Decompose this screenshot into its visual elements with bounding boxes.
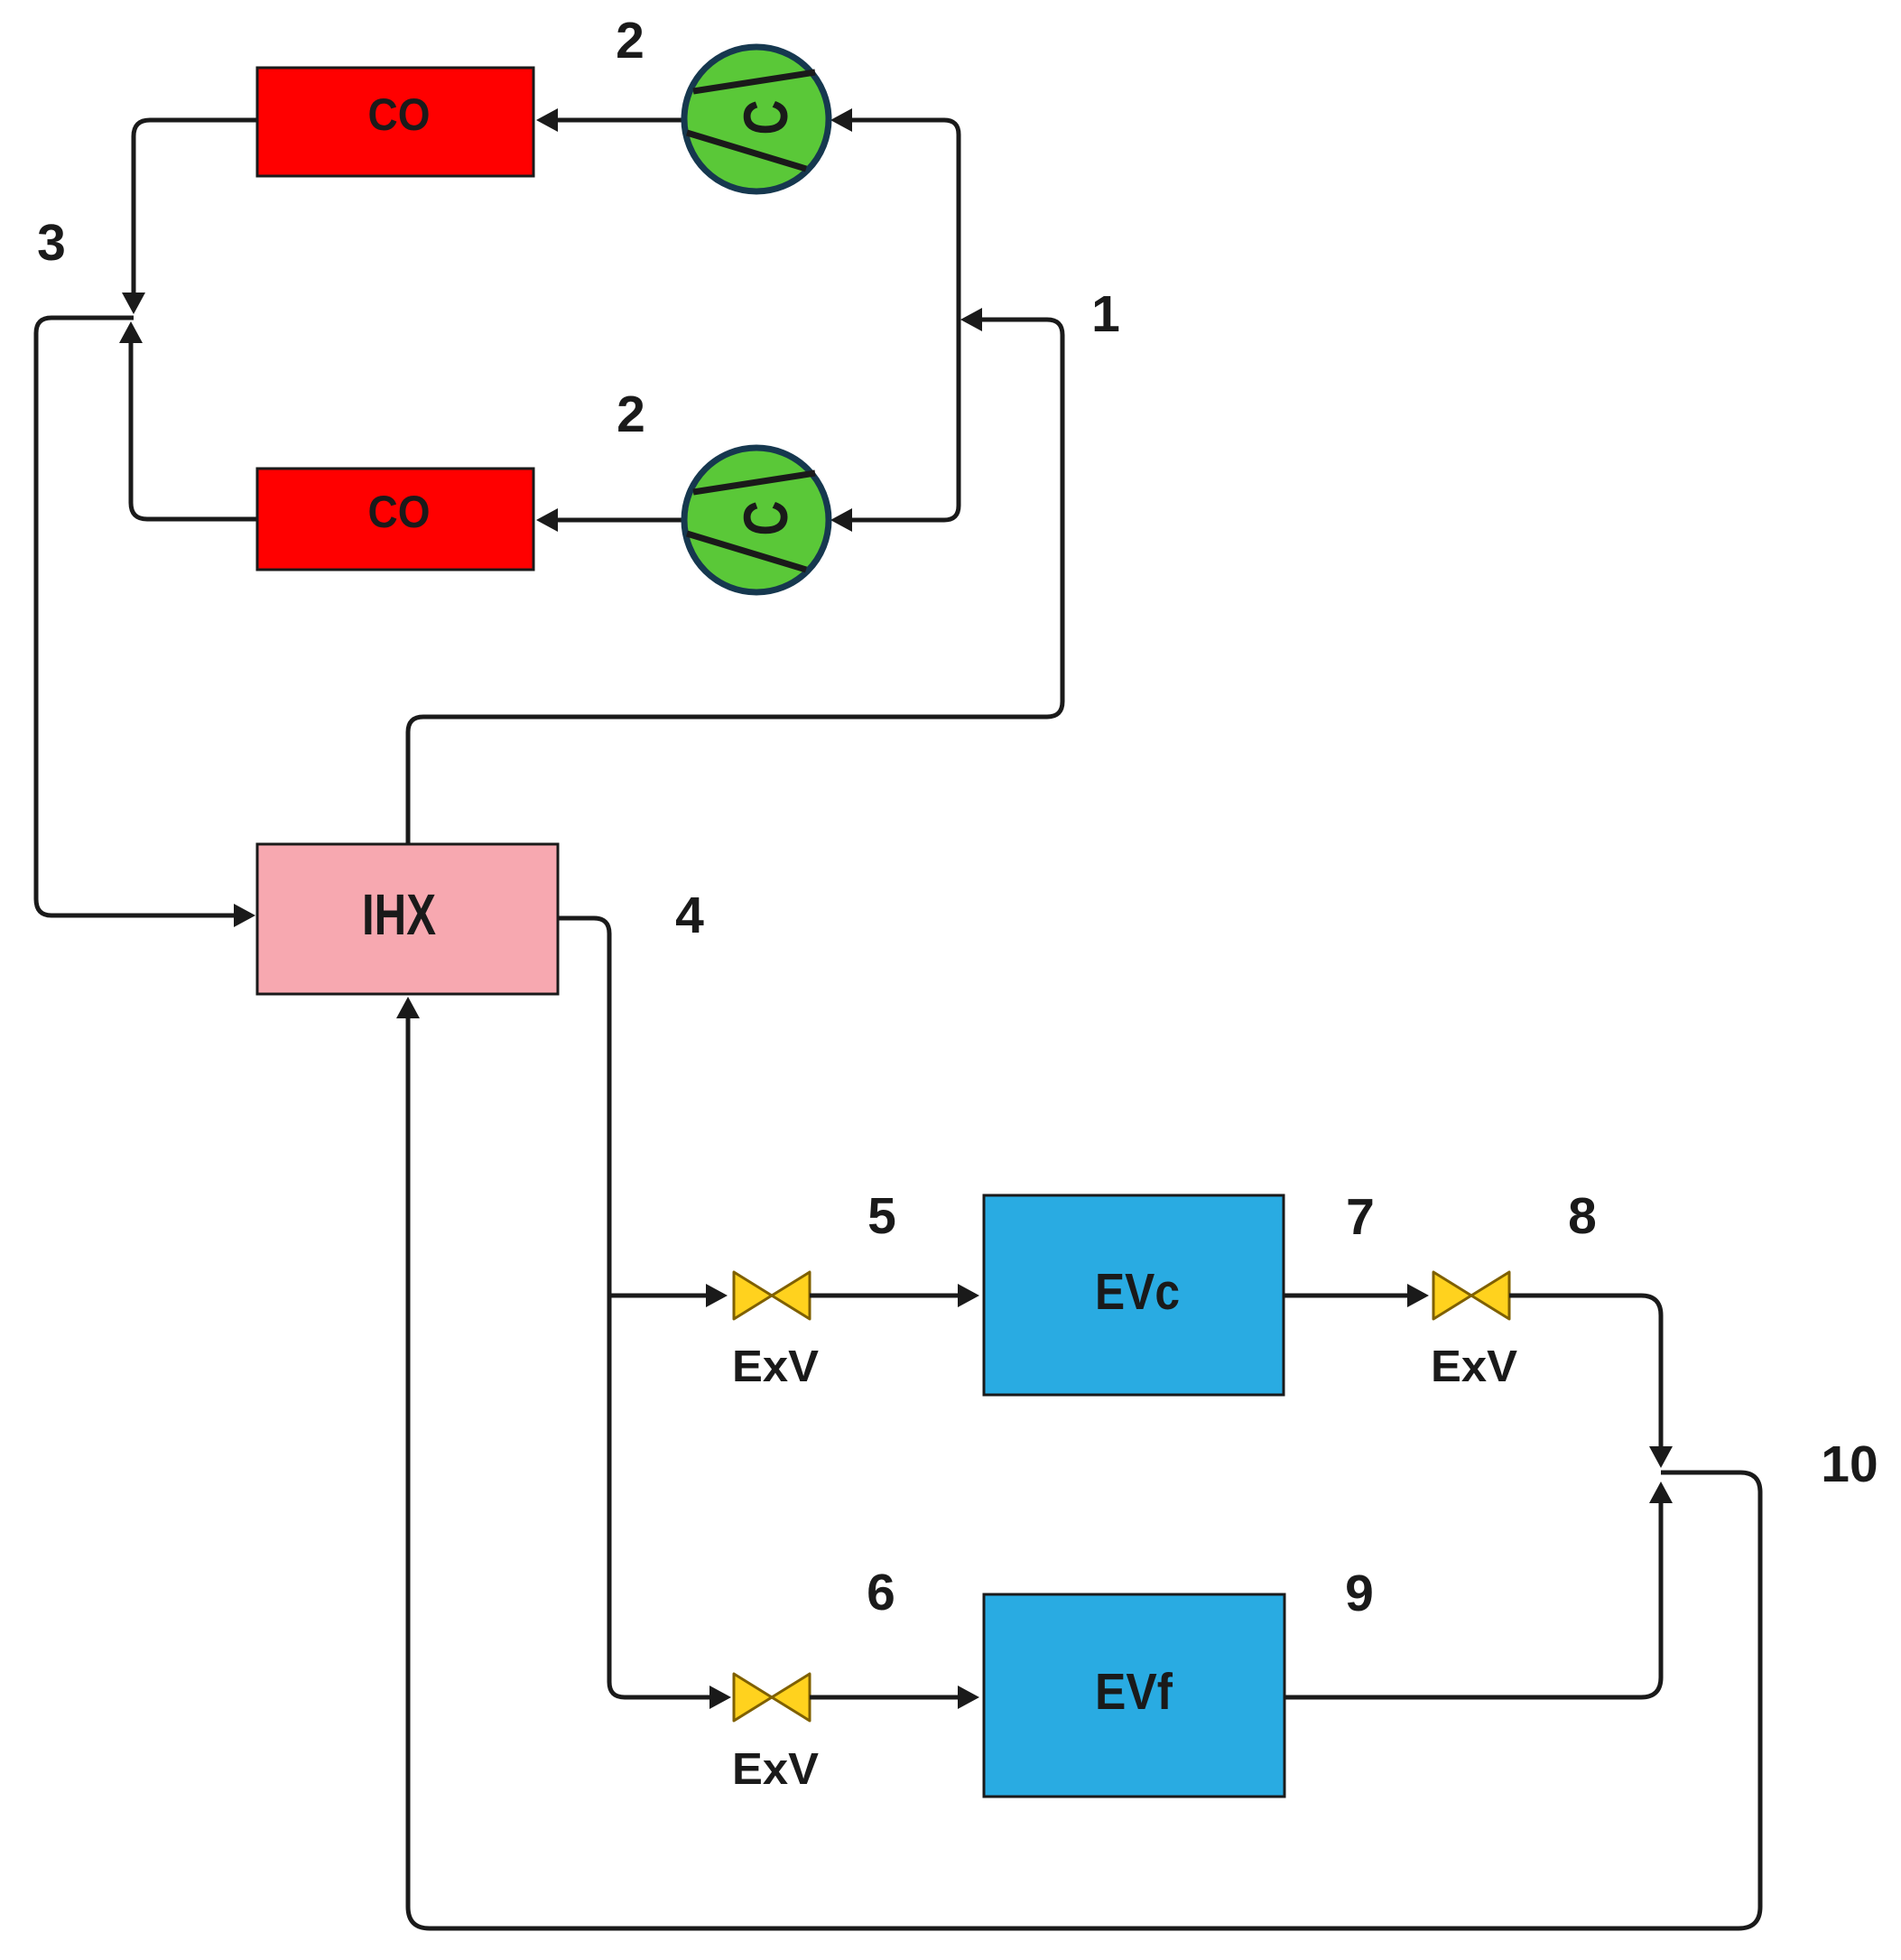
- svg-text:9: 9: [1345, 1565, 1374, 1622]
- svg-text:CO: CO: [368, 487, 431, 537]
- arrow on EVf branch before valve (pointing right): [709, 1686, 731, 1709]
- label ExV (EVc inlet valve): [732, 1342, 819, 1391]
- arrow into IHX left inlet (pointing right): [234, 904, 255, 927]
- arrow into junction 3 from top (pointing down): [122, 293, 145, 314]
- node label 3: [37, 214, 66, 272]
- node label 1: [1091, 285, 1120, 343]
- wire: junction 3 left, down and into IHX left inlet: [36, 318, 234, 915]
- wire: suction manifold with branches to both compressors: [852, 120, 959, 520]
- arrow into top compressor inlet (pointing left): [830, 108, 852, 132]
- wire: stream 9 from EVf outlet up to junction 10: [1284, 1503, 1661, 1697]
- svg-text:EVc: EVc: [1095, 1263, 1180, 1321]
- svg-text:5: 5: [867, 1187, 896, 1245]
- gas cooler CO (bottom): [257, 469, 533, 570]
- label IHX: [362, 882, 436, 947]
- gas cooler CO (top): [257, 68, 533, 176]
- node label 8: [1568, 1187, 1597, 1245]
- svg-text:1: 1: [1091, 285, 1120, 343]
- wire: top gas-cooler outlet down to junction 3: [134, 120, 257, 294]
- node label 10: [1821, 1435, 1878, 1493]
- compressor C (top): [684, 47, 829, 191]
- svg-text:C: C: [731, 501, 801, 536]
- svg-text:8: 8: [1568, 1187, 1597, 1245]
- node label 9: [1345, 1565, 1374, 1622]
- label EVf: [1095, 1663, 1173, 1721]
- internal heat exchanger IHX box: [257, 844, 558, 994]
- wire: top compressor outlet to gas cooler CO (top): [558, 118, 684, 123]
- wire: bottom compressor outlet to gas cooler CO (bottom): [558, 518, 684, 523]
- svg-text:2: 2: [617, 385, 645, 443]
- node label 2 (bottom compressor discharge): [617, 385, 645, 443]
- arrow stream 1 into manifold junction (pointing left): [960, 308, 982, 331]
- wire: EVc outlet to second valve: [1284, 1294, 1407, 1298]
- compressor C (bottom): [684, 448, 829, 592]
- svg-text:CO: CO: [368, 89, 431, 140]
- svg-text:2: 2: [616, 12, 644, 70]
- wire: stream 10 from junction right, down, along bottom and up into IHX bottom: [408, 1018, 1760, 1928]
- svg-text:6: 6: [867, 1564, 895, 1621]
- arrow into bottom CO right edge (pointing left): [536, 508, 558, 532]
- arrow into junction 3 from bottom (pointing up): [119, 321, 143, 343]
- wire: valve to EVc inlet: [810, 1294, 958, 1298]
- svg-text:EVf: EVf: [1095, 1663, 1173, 1721]
- wire: bottom gas-cooler outlet up to junction 3: [131, 343, 257, 519]
- expansion valve ExV (EVc outlet): [1433, 1272, 1509, 1319]
- wire: EVc branch from trunk tee: [609, 1294, 706, 1298]
- svg-text:10: 10: [1821, 1435, 1878, 1493]
- arrow into EVc left edge (pointing right): [958, 1284, 979, 1307]
- arrow into bottom compressor inlet (pointing left): [830, 508, 852, 532]
- arrow stream 8 into junction 10 (pointing down): [1649, 1446, 1673, 1468]
- svg-text:ExV: ExV: [732, 1745, 819, 1794]
- wire: stream 4 trunk from IHX right edge down to EVf branch: [558, 918, 709, 1697]
- node label 4: [675, 887, 704, 944]
- expansion valve ExV (EVc inlet): [734, 1272, 810, 1319]
- arrow into top CO right edge (pointing left): [536, 108, 558, 132]
- label CO (top): [368, 89, 431, 140]
- node label 2 (top compressor discharge): [616, 12, 644, 70]
- arrow stream 10 into IHX bottom (pointing up): [396, 997, 420, 1018]
- arrow before EVc outlet valve (pointing right): [1407, 1284, 1429, 1307]
- label CO (bottom): [368, 487, 431, 537]
- svg-text:3: 3: [37, 214, 66, 272]
- arrow into EVf left edge (pointing right): [958, 1686, 979, 1709]
- evaporator EVf box: [984, 1594, 1284, 1797]
- svg-text:ExV: ExV: [732, 1342, 819, 1391]
- arrow on EVc branch before valve (pointing right): [706, 1284, 728, 1307]
- node label 7: [1346, 1188, 1375, 1246]
- label ExV (EVf inlet valve): [732, 1745, 819, 1794]
- svg-text:IHX: IHX: [362, 882, 436, 947]
- expansion valve ExV (EVf inlet): [734, 1674, 810, 1721]
- evaporator EVc box: [984, 1195, 1284, 1395]
- svg-text:ExV: ExV: [1431, 1342, 1517, 1391]
- label EVc: [1095, 1263, 1180, 1321]
- node label 6: [867, 1564, 895, 1621]
- svg-text:C: C: [731, 100, 801, 135]
- svg-text:7: 7: [1346, 1188, 1375, 1246]
- wire: stream 1 from IHX top up and left into suction manifold: [408, 320, 1062, 844]
- svg-text:4: 4: [675, 887, 704, 944]
- arrow stream 9 into junction 10 (pointing up): [1649, 1482, 1673, 1503]
- wire: valve to EVf inlet: [810, 1695, 958, 1700]
- label ExV (EVc outlet valve): [1431, 1342, 1517, 1391]
- node label 5: [867, 1187, 896, 1245]
- wire: stream 8 from valve to junction 10: [1509, 1296, 1661, 1446]
